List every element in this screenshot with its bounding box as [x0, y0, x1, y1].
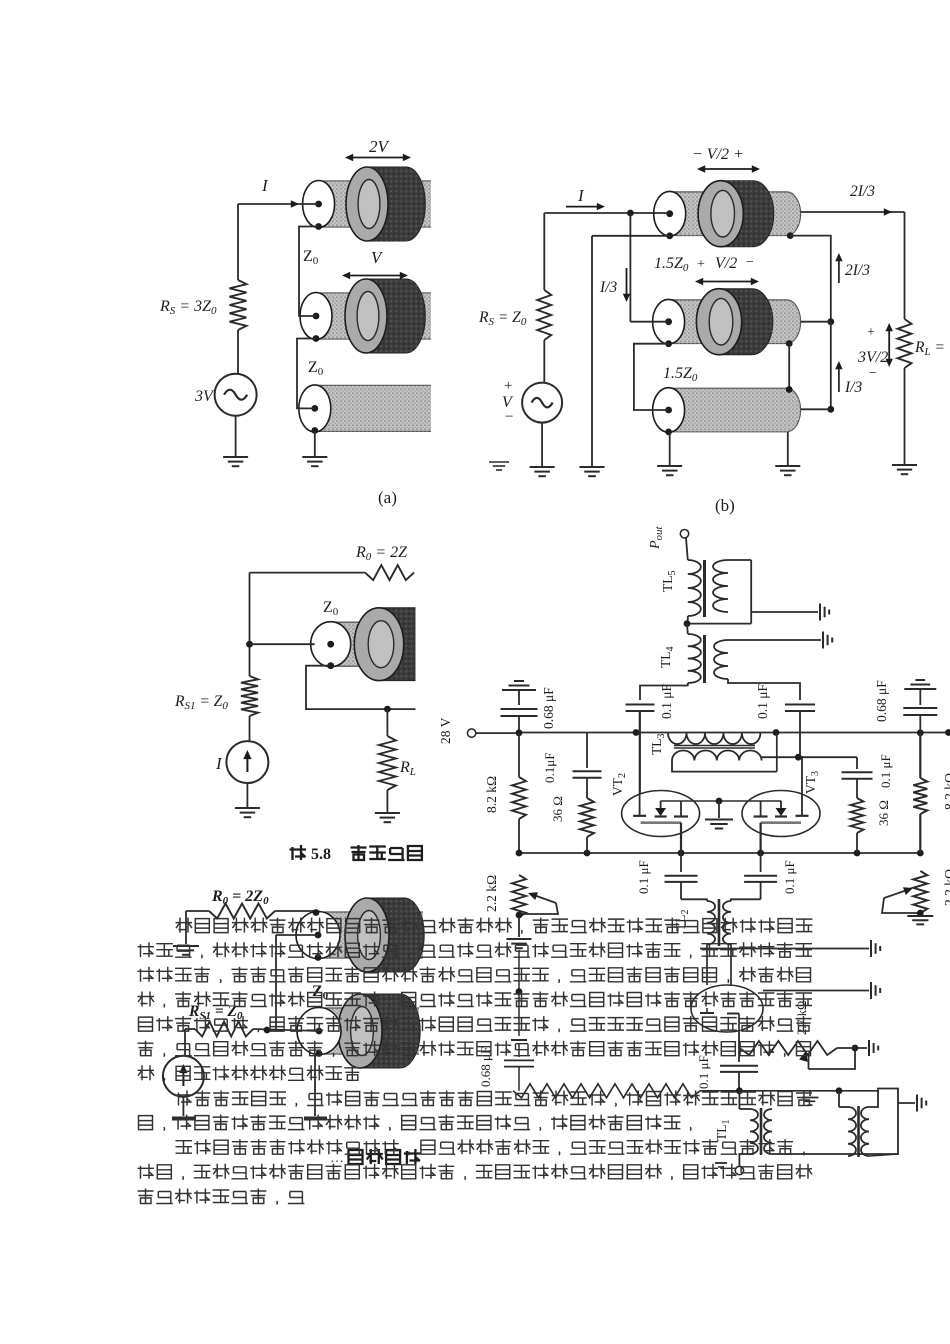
svg-text:28 V: 28 V — [438, 717, 453, 744]
svg-text:2.2 kΩ: 2.2 kΩ — [942, 869, 950, 906]
svg-text:0.1 μF: 0.1 μF — [696, 1055, 711, 1089]
svg-text:1.5Z0: 1.5Z0 — [654, 255, 689, 274]
svg-text:(b): (b) — [715, 496, 735, 515]
svg-text:2V: 2V — [369, 137, 391, 156]
svg-text:RL =: RL = — [914, 339, 945, 358]
svg-text:RS = Z0: RS = Z0 — [478, 309, 527, 328]
svg-text:RS1 = Z0: RS1 = Z0 — [174, 693, 228, 712]
svg-text:RS = 3Z0: RS = 3Z0 — [159, 298, 217, 317]
svg-text:I: I — [261, 176, 269, 195]
svg-text:−: − — [505, 409, 513, 425]
svg-text:VT2: VT2 — [610, 773, 628, 796]
svg-text:VT3: VT3 — [803, 771, 821, 794]
svg-text:Z0: Z0 — [303, 248, 319, 267]
svg-text:0.1μF: 0.1μF — [542, 753, 557, 783]
svg-text:0.1 μF: 0.1 μF — [755, 684, 770, 719]
svg-text:TL5: TL5 — [660, 571, 678, 593]
svg-text:− V/2 +: − V/2 + — [692, 146, 744, 163]
svg-text:Z0: Z0 — [308, 359, 324, 378]
svg-text:TL1: TL1 — [714, 1120, 732, 1142]
svg-text:TL4: TL4 — [658, 647, 676, 669]
svg-text:(a): (a) — [378, 488, 397, 507]
svg-text:2I/3: 2I/3 — [850, 183, 875, 200]
svg-text:I/3: I/3 — [844, 379, 862, 396]
svg-text:V: V — [371, 248, 384, 267]
svg-text:0.68 μF: 0.68 μF — [541, 687, 556, 729]
svg-text:2.2 kΩ: 2.2 kΩ — [484, 875, 499, 912]
svg-text:0.1 μF: 0.1 μF — [782, 860, 797, 894]
svg-text:8.2 kΩ: 8.2 kΩ — [942, 773, 950, 810]
svg-text:0.1 μF: 0.1 μF — [878, 754, 893, 788]
svg-text:I: I — [577, 186, 585, 205]
svg-text:−: − — [869, 366, 877, 381]
svg-text:I: I — [215, 754, 223, 773]
svg-text:5.8: 5.8 — [311, 846, 331, 863]
svg-text:Z0: Z0 — [323, 599, 339, 618]
svg-text:0.1 μF: 0.1 μF — [659, 684, 674, 719]
svg-text:+: + — [697, 257, 705, 272]
svg-text:3V/2: 3V/2 — [857, 349, 888, 366]
svg-text:0.1 μF: 0.1 μF — [636, 860, 651, 894]
svg-text:1.5Z0: 1.5Z0 — [663, 365, 698, 384]
svg-text:3V: 3V — [194, 388, 215, 405]
svg-text:R0 = 2Z0: R0 = 2Z0 — [211, 888, 269, 907]
svg-text:36 Ω: 36 Ω — [550, 796, 565, 822]
svg-text:+: + — [504, 378, 512, 394]
svg-text:I/3: I/3 — [599, 279, 617, 296]
svg-text:−: − — [746, 255, 754, 270]
svg-text:+: + — [867, 325, 875, 340]
svg-text:36 Ω: 36 Ω — [876, 800, 891, 826]
svg-text:Pout: Pout — [648, 525, 665, 550]
svg-text:0.68 μF: 0.68 μF — [874, 680, 889, 722]
svg-text:TL3: TL3 — [649, 734, 667, 756]
svg-text:2I/3: 2I/3 — [845, 262, 870, 279]
svg-text:8.2 kΩ: 8.2 kΩ — [484, 776, 499, 813]
svg-text:V/2: V/2 — [715, 255, 737, 272]
svg-text:R0 = 2Z: R0 = 2Z — [355, 544, 408, 563]
svg-text:RL: RL — [399, 759, 416, 778]
